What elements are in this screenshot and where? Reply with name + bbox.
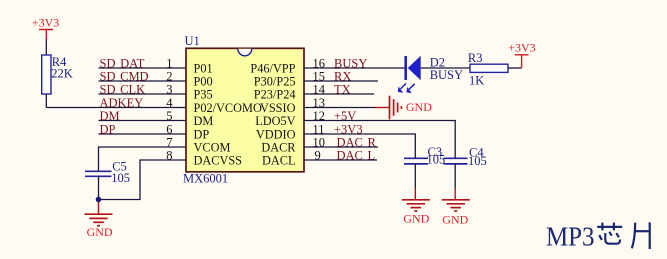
svg-text:22K: 22K xyxy=(51,66,73,80)
ground (below C4) xyxy=(442,189,470,227)
svg-text:RX: RX xyxy=(334,69,351,83)
svg-text:BUSY: BUSY xyxy=(334,56,367,70)
svg-text:P01: P01 xyxy=(194,62,213,76)
wire C3 to ground xyxy=(414,164,416,188)
svg-text:105: 105 xyxy=(468,154,487,168)
LED arrow 1 xyxy=(401,83,407,89)
wire pin6 DP xyxy=(99,133,187,135)
svg-text:VSSIO: VSSIO xyxy=(260,101,296,115)
svg-text:TX: TX xyxy=(334,82,351,96)
wire pin12 +5V to C4 xyxy=(304,121,455,159)
svg-text:+5V: +5V xyxy=(334,109,356,123)
svg-text:SD CMD: SD CMD xyxy=(100,69,149,83)
svg-text:GND: GND xyxy=(403,212,429,226)
svg-text:DM: DM xyxy=(194,114,214,128)
wire LED to R3 xyxy=(421,67,470,69)
power +3V3 (left) xyxy=(32,15,59,39)
svg-text:105: 105 xyxy=(111,171,130,185)
svg-text:SD DAT: SD DAT xyxy=(100,56,145,70)
svg-text:MX6001: MX6001 xyxy=(183,172,228,186)
IC notch xyxy=(238,49,252,56)
resistor R3 xyxy=(468,51,508,88)
svg-text:+3V3: +3V3 xyxy=(32,15,59,29)
svg-text:BUSY: BUSY xyxy=(430,68,463,82)
svg-text:P00: P00 xyxy=(194,75,213,89)
wire pin5 DM xyxy=(99,120,187,122)
svg-text:VCOM: VCOM xyxy=(194,141,231,155)
svg-text:R3: R3 xyxy=(468,51,483,65)
svg-text:GND: GND xyxy=(87,225,113,239)
svg-text:DP: DP xyxy=(100,122,116,136)
wire R4 to ADKEY node xyxy=(45,94,47,108)
capacitor C3 xyxy=(404,145,445,167)
wire +3V3 to R4 xyxy=(45,39,47,55)
wire pin7 to C5 xyxy=(99,147,187,171)
svg-text:DACL: DACL xyxy=(262,154,295,168)
svg-text:LDO5V: LDO5V xyxy=(255,114,295,128)
ground (pin13, sideways) xyxy=(375,96,432,120)
wire pin8 to junction xyxy=(99,160,187,200)
wire pin13 to ground xyxy=(304,107,375,109)
svg-text:+3V3: +3V3 xyxy=(508,41,535,55)
svg-text:MP3: MP3 xyxy=(546,221,595,252)
svg-text:P02/VCOMO: P02/VCOMO xyxy=(194,101,262,115)
svg-text:DP: DP xyxy=(194,128,210,142)
svg-text:105: 105 xyxy=(427,153,446,167)
wire pin15 RX xyxy=(304,80,378,82)
svg-text:3: 3 xyxy=(166,82,172,96)
wire pin3 SD_CLK xyxy=(99,93,187,95)
svg-text:VDDIO: VDDIO xyxy=(256,128,296,142)
wire pin16 BUSY to LED xyxy=(304,67,405,69)
svg-text:2: 2 xyxy=(166,69,172,83)
svg-text:5: 5 xyxy=(166,109,172,123)
svg-text:DACVSS: DACVSS xyxy=(194,154,243,168)
power +3V3 (right) xyxy=(508,41,535,68)
svg-text:1: 1 xyxy=(166,56,172,70)
svg-text:DAC R: DAC R xyxy=(337,135,377,149)
wire pin1 SD_DAT xyxy=(99,67,187,69)
svg-text:P46/VPP: P46/VPP xyxy=(250,62,295,76)
capacitor C5 xyxy=(85,159,130,185)
title glyph 芯 xyxy=(597,223,622,244)
svg-text:GND: GND xyxy=(442,213,468,227)
wire pin11 +3V3 to C3 xyxy=(304,134,415,158)
title glyph 片 xyxy=(632,222,650,249)
wire pin4 ADKEY xyxy=(46,107,186,109)
capacitor C4 xyxy=(444,145,487,168)
svg-text:1K: 1K xyxy=(469,74,484,88)
svg-text:GND: GND xyxy=(406,100,432,114)
wire R3 to +3V3 xyxy=(508,67,522,69)
svg-text:SD CLK: SD CLK xyxy=(100,82,146,96)
svg-text:+3V3: +3V3 xyxy=(334,122,363,136)
svg-text:4: 4 xyxy=(166,96,173,110)
junction node xyxy=(96,197,102,203)
wire C4 to ground xyxy=(454,164,456,189)
ground (below C3) xyxy=(402,188,430,226)
wire pin10 DAC R xyxy=(304,146,378,148)
wire pin9 DAC L xyxy=(304,159,377,161)
svg-text:DM: DM xyxy=(100,109,120,123)
LED arrow 2 xyxy=(409,84,415,90)
wire pin2 SD_CMD xyxy=(99,80,187,82)
svg-text:P30/P25: P30/P25 xyxy=(254,75,296,89)
svg-text:ADKEY: ADKEY xyxy=(100,96,144,110)
LED D2 xyxy=(406,55,463,82)
op-amp U1 / IC MX6001 body xyxy=(183,34,304,186)
svg-text:P23/P24: P23/P24 xyxy=(254,88,296,102)
wire pin14 TX xyxy=(304,93,374,95)
resistor R4 xyxy=(42,55,73,94)
svg-text:U1: U1 xyxy=(185,34,200,48)
svg-text:6: 6 xyxy=(166,122,172,136)
svg-text:DAC L: DAC L xyxy=(337,148,376,162)
svg-text:DACR: DACR xyxy=(261,141,296,155)
wire C5 to junction xyxy=(98,176,100,199)
svg-text:P35: P35 xyxy=(194,88,213,102)
ground (below C5) xyxy=(85,202,113,239)
